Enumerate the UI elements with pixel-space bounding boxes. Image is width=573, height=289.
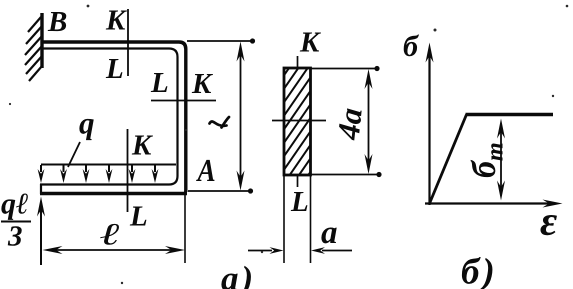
section centre line horizontal [272, 120, 326, 122]
label 4a (rotated) [338, 108, 362, 141]
section L-K line on vertical beam [151, 100, 216, 102]
label L (section) [291, 192, 308, 211]
label A [196, 160, 214, 181]
frame inner contour [40, 49, 178, 185]
leader line from q [68, 142, 80, 167]
label sigma [404, 35, 419, 57]
reaction arrow ql/3 [40, 210, 42, 265]
label l (vertical dim, rotated) [210, 117, 230, 128]
load arrow 3 [83, 165, 90, 183]
load arrow 4 [106, 165, 113, 183]
top extension line [187, 40, 252, 42]
wall hatching at support B [25, 17, 42, 81]
stress-strain curve rising branch [430, 115, 467, 204]
label a) [221, 266, 251, 289]
label B [48, 12, 67, 31]
bottom dimension line l [50, 249, 178, 251]
label b) [462, 257, 493, 289]
label K (bottom section) [132, 136, 153, 155]
sigma axis (vertical) [428, 55, 430, 205]
4a dimension bottom extension [311, 174, 379, 176]
label K (vertical beam section) [192, 74, 213, 93]
right extension line for l dim [184, 191, 186, 263]
sigma_T dimension line [500, 130, 502, 190]
label l (bottom dim) [100, 224, 119, 245]
label L (vertical beam section) [151, 73, 168, 92]
a dimension left arrow [248, 250, 272, 252]
label epsilon [540, 215, 556, 235]
load arrow 2 [60, 165, 67, 183]
load arrow 1 [38, 165, 45, 183]
label q [79, 119, 93, 140]
a dimension right arrow [322, 250, 352, 252]
distributed load top line [41, 164, 176, 166]
load arrow 5 [129, 165, 136, 183]
4a dimension line [368, 80, 370, 163]
frame bottom outer line [40, 192, 187, 195]
4a dimension top extension [311, 68, 377, 70]
label a [321, 227, 336, 243]
cross-section hatch [278, 26, 318, 233]
section centre line vertical (K-L axis) [297, 56, 299, 68]
label L (top section) [106, 59, 123, 78]
label sigma_T (rotated) [471, 144, 503, 178]
label ql over 3 fraction [1, 194, 27, 220]
bottom extension line [188, 190, 250, 192]
left cap of bottom beam [40, 184, 42, 194]
stress-strain plateau [466, 113, 554, 117]
label L (bottom section) [130, 207, 147, 226]
vertical dimension l on right of frame [240, 55, 242, 180]
section K-L line on bottom beam [127, 129, 129, 212]
cross-section rectangle [284, 68, 311, 175]
label K (top section) [106, 11, 127, 30]
label K (section) [300, 33, 321, 52]
section K-L line on top beam [127, 9, 129, 76]
a dimension extension lines under section [283, 175, 285, 263]
epsilon axis (horizontal) [425, 202, 550, 204]
frame outer contour [42, 42, 186, 192]
wall line [40, 13, 43, 68]
load arrow 6 [152, 165, 159, 183]
